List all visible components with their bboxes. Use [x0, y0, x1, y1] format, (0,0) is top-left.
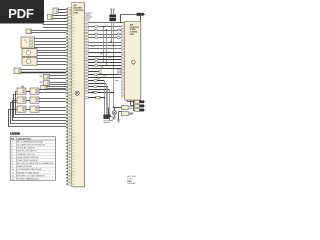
connector C12	[135, 109, 146, 112]
wire C1 pin1	[58, 9, 66, 11]
pin, strip right y86	[84, 86, 88, 88]
wire strip-right y77	[88, 77, 121, 79]
connector CR2 right	[30, 97, 39, 103]
inline connector y86	[94, 86, 98, 88]
legend table frame	[10, 137, 55, 180]
wire CR2 pin2	[39, 101, 66, 103]
label terminal ids	[103, 120, 110, 122]
inline connector y74	[94, 74, 98, 76]
svg-text:A/C COMPRESSOR RELAY: A/C COMPRESSOR RELAY	[17, 140, 44, 143]
inline connector y59	[94, 58, 98, 60]
connector pin block, strip right side upper	[85, 32, 88, 34]
wire C4 pin1	[21, 69, 66, 71]
wire loop to strip y126	[9, 110, 67, 127]
wire to motor M3	[108, 108, 110, 117]
wire strip-right y59	[88, 59, 121, 61]
wire net R45	[88, 45, 121, 47]
wire K3 y44	[35, 44, 67, 46]
pin, strip right y97	[84, 97, 88, 99]
wire C1 pin2	[58, 12, 66, 14]
svg-text:BLOWER MOTOR RESISTOR: BLOWER MOTOR RESISTOR	[17, 144, 46, 146]
wire S3 pin1	[47, 86, 66, 88]
wire K3 y41	[35, 41, 67, 43]
ground G3	[117, 120, 121, 122]
motor M1	[22, 49, 37, 57]
relay K2	[122, 112, 129, 116]
inline connector at y34	[95, 33, 99, 35]
wire down x107	[107, 87, 109, 115]
wire down x109	[109, 90, 111, 115]
svg-text:RECIRC ACTUATOR: RECIRC ACTUATOR	[17, 150, 37, 153]
svg-text:HEATER RELAY: HEATER RELAY	[17, 165, 33, 168]
svg-text:POWER TRANSISTOR: POWER TRANSISTOR	[17, 177, 39, 180]
legend header row	[10, 139, 55, 141]
wire strip-right y80	[88, 80, 104, 82]
inline connector near unit y37	[117, 37, 121, 39]
label A/C heater control unit	[73, 4, 84, 14]
wire lamp feed	[113, 107, 122, 109]
wire strip-right y62	[88, 62, 121, 64]
inline connector y62	[94, 61, 98, 63]
lamp L1 inside control unit	[75, 91, 79, 95]
wire S3 pin2	[47, 88, 66, 90]
wire under badge 1	[43, 21, 66, 23]
label air monitor control unit	[130, 24, 140, 36]
wire down x106	[106, 84, 108, 115]
motor M2	[22, 57, 37, 65]
wire CR3 pin1	[39, 107, 66, 109]
wire net R48	[88, 48, 121, 50]
svg-text:LEGEND: LEGEND	[10, 132, 20, 135]
wire unit bottom 3	[134, 101, 135, 111]
inline connector y92	[94, 91, 98, 93]
connector C11	[135, 104, 146, 107]
connector C1	[53, 8, 58, 13]
svg-text:MODE ACTUATOR: MODE ACTUATOR	[17, 147, 35, 150]
wire M1 y55	[37, 55, 66, 57]
wire strip-right y68	[88, 68, 121, 70]
wire strip-right y71	[88, 71, 101, 73]
pin, strip right y71	[84, 71, 88, 73]
wire link row1	[26, 91, 30, 93]
wire vertical from fuse F1b long	[113, 21, 115, 108]
pin, strip right y80	[84, 80, 88, 82]
switch S1	[43, 74, 49, 79]
connector bullet, battery feed	[137, 13, 146, 16]
connector CL1 left	[17, 88, 26, 94]
connector C8 pair	[99, 70, 102, 74]
connector C2	[48, 14, 53, 19]
svg-text:DESCRIPTION: DESCRIPTION	[18, 138, 32, 140]
wire S2 pin1	[50, 82, 67, 84]
op-amp U2 air monitor control unit	[125, 22, 141, 100]
wire strip-right y52	[88, 52, 121, 54]
diode D1	[92, 91, 94, 93]
legend column divider	[15, 137, 17, 180]
ground G1	[113, 117, 117, 119]
inline connector y80	[94, 80, 98, 82]
wire loop to strip y123	[11, 103, 67, 124]
pin, strip right y89	[84, 89, 88, 91]
connector C4	[14, 68, 21, 74]
wire net R34	[88, 34, 121, 36]
inline connector at y30	[95, 29, 99, 31]
wire net R42	[88, 42, 121, 44]
pin, strip right y59	[84, 58, 88, 60]
wire net R30	[88, 30, 121, 32]
pin, strip right y74	[84, 74, 88, 76]
inline connector at y37	[95, 37, 99, 39]
wire, battery feed loop	[121, 15, 141, 23]
wire M2 y58	[37, 58, 66, 60]
legend rows	[10, 140, 55, 180]
label S1 S2 ids	[39, 76, 42, 83]
pin, strip right y92	[84, 91, 88, 93]
wire loop to strip y117	[14, 95, 67, 118]
inline connector y65	[94, 65, 98, 67]
label relay K1/K2 ids	[129, 106, 134, 115]
wire into M3	[108, 115, 111, 117]
svg-text:UNIT: UNIT	[73, 12, 79, 14]
svg-text:DUAL PRESS SWITCH: DUAL PRESS SWITCH	[17, 156, 39, 159]
label pin numbers inside strip	[73, 8, 75, 184]
pin, strip right y56	[84, 55, 88, 57]
wire to ground G3	[118, 112, 120, 120]
inline connector near unit y30	[117, 29, 121, 31]
wire M1 y53	[37, 52, 66, 54]
svg-text:RADIATOR FAN RELAY: RADIATOR FAN RELAY	[17, 171, 40, 174]
A/C heater control unit strip shadow	[73, 3, 86, 188]
connector CR1 right	[30, 88, 39, 94]
wire loop to strip y114	[16, 92, 67, 115]
wire C3 pin1	[32, 30, 67, 32]
wire strip-right y92	[88, 92, 113, 94]
svg-text:A/C SW, BLOWER SW ILLUMINATION: A/C SW, BLOWER SW ILLUMINATION	[17, 162, 53, 165]
connector C9	[96, 96, 100, 99]
label connector id below C12	[129, 112, 133, 115]
wire C4 pin2 heavy	[21, 72, 66, 74]
wire K3 y38	[35, 38, 67, 40]
connector pin column, strip left side	[66, 8, 72, 186]
label wire codes middle area	[91, 46, 119, 81]
terminal block group	[103, 114, 110, 119]
pin, strip right y62	[84, 61, 88, 63]
svg-text:ENGINE COOLANT SENSOR: ENGINE COOLANT SENSOR	[17, 174, 45, 177]
connector CR3 right	[30, 106, 39, 112]
svg-text:EVAP TEMP SENSOR: EVAP TEMP SENSOR	[17, 159, 38, 162]
wire lamp drop	[114, 108, 116, 111]
PDF badge	[0, 0, 44, 24]
wire loop to strip y120	[13, 101, 67, 121]
wire CR1 pin2	[39, 92, 66, 94]
wire M2 y64	[37, 64, 66, 66]
wire C3 pin2	[32, 32, 67, 34]
pin, strip right y65	[84, 64, 88, 66]
svg-text:PDF: PDF	[8, 6, 34, 21]
connector C10	[135, 100, 146, 103]
wire link row3	[26, 109, 30, 111]
lamp L2 inside air monitor unit	[132, 60, 136, 65]
wire to resistor box	[119, 111, 122, 113]
wire net R26	[88, 26, 121, 28]
pin, strip right y68	[84, 68, 88, 70]
node junction dots	[103, 26, 104, 27]
wire under badge 2	[43, 24, 66, 26]
wire strip-right y86	[88, 86, 108, 88]
wire under badge 3	[43, 27, 66, 29]
inline connector at y26	[95, 26, 99, 28]
switch S3	[41, 85, 47, 89]
svg-text:CONDENSER FAN RELAY: CONDENSER FAN RELAY	[17, 168, 42, 171]
pin pair near unit y70	[118, 70, 121, 72]
wire M2 y61	[37, 61, 66, 63]
switch S2	[43, 81, 49, 86]
connector CL2 left	[17, 97, 26, 103]
wire unit bottom 2	[131, 101, 135, 106]
wire CR1 pin1	[39, 89, 66, 91]
motor M3	[109, 117, 113, 121]
wire vertical from fuse F1a	[111, 21, 113, 42]
wire net R37	[88, 37, 121, 39]
wire S2 pin2	[50, 84, 67, 86]
relay K3	[21, 37, 35, 48]
wire C2 pin1	[53, 15, 66, 17]
wire strip-right y65	[88, 65, 121, 67]
node junction J1	[121, 107, 123, 109]
wire link row2	[26, 100, 30, 102]
wire lamp to ground	[114, 115, 116, 117]
pin, strip right y77	[84, 77, 88, 79]
wire strip-right y89	[88, 89, 109, 91]
wire down x104	[104, 81, 106, 115]
wire vertical V2	[106, 30, 108, 66]
wire net R22	[88, 22, 121, 24]
wire M1 y50	[37, 50, 66, 52]
wire CR3 pin2	[39, 110, 66, 112]
wire strip-right y74	[88, 74, 121, 76]
label wire codes near strip top	[86, 13, 93, 20]
connector C3	[26, 29, 32, 34]
pin, strip right y83	[84, 83, 88, 85]
wire S1 pin1	[50, 75, 67, 77]
lamp L3	[112, 111, 116, 115]
label footer note	[127, 175, 136, 185]
wire S1 pin2	[50, 78, 67, 80]
svg-text:THERMO SWITCH: THERMO SWITCH	[17, 154, 35, 156]
connector pin column, air monitor unit left side	[121, 25, 124, 97]
wire vertical V1	[103, 27, 105, 63]
fuse block F1	[109, 9, 116, 21]
wire K3 y47	[35, 47, 67, 49]
air monitor unit shadow	[125, 22, 141, 100]
wire down from C9	[104, 98, 106, 115]
relay K1	[122, 105, 129, 109]
svg-text:DIAGRAM: DIAGRAM	[127, 182, 135, 185]
connector CL3 left	[17, 106, 26, 112]
pin, strip right y52	[84, 52, 88, 54]
wire strip-right y97	[88, 97, 104, 99]
wire CR2 pin1	[39, 98, 66, 100]
wire strip-right y83	[88, 83, 106, 85]
wire strip-right y56	[88, 56, 121, 58]
op-amp U1 A/C heater control unit strip	[72, 2, 84, 187]
wire unit bottom 1	[128, 101, 135, 102]
wire C2 pin2	[53, 18, 66, 20]
inline connector near unit y34	[117, 33, 121, 35]
